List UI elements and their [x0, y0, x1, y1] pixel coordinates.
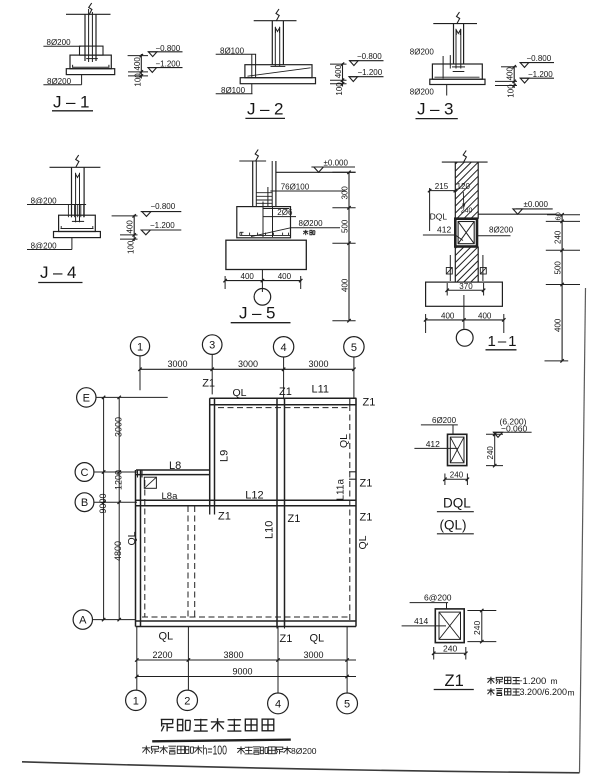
svg-text:120: 120 [457, 182, 471, 191]
svg-text:240: 240 [472, 621, 482, 635]
svg-text:1200: 1200 [113, 470, 123, 490]
svg-text:h=100: h=100 [203, 744, 228, 758]
wall column 1 [135, 470, 137, 627]
footing rebar J4 [61, 228, 94, 230]
svg-text:−1.200: −1.200 [150, 221, 175, 230]
wall column 5 outer [355, 398, 357, 626]
svg-text:±0.000: ±0.000 [324, 159, 349, 168]
svg-text:370: 370 [459, 282, 473, 291]
footing rebar J1 [72, 66, 110, 68]
svg-text:J–4: J–4 [40, 263, 81, 282]
svg-text:8Ø200: 8Ø200 [291, 746, 317, 756]
left dim lines [103, 397, 105, 619]
column Z1 corner E5 [350, 398, 356, 405]
svg-text:−1.200: −1.200 [528, 70, 553, 79]
section 1-1 [423, 151, 580, 363]
grid bubble B [75, 493, 94, 512]
wall break top line [239, 160, 266, 162]
column J3 [453, 24, 455, 64]
right dim 240 DQL [494, 434, 496, 465]
svg-text:m: m [568, 688, 575, 698]
center line [463, 295, 465, 329]
svg-text:240: 240 [443, 644, 457, 654]
slab top line [66, 13, 111, 15]
hidden QL dashed row E [218, 407, 348, 409]
svg-text:3000: 3000 [238, 359, 258, 369]
svg-text:8Ø200: 8Ø200 [410, 48, 435, 57]
drawing title roof structure plan [152, 718, 291, 741]
grid bubble 3 top [202, 335, 222, 355]
svg-text:100: 100 [506, 84, 515, 98]
grid stems bottom [136, 627, 138, 690]
hatched wall upper [454, 162, 456, 219]
slab top line [433, 23, 477, 25]
dim 400/100 J3 [513, 66, 515, 88]
wall top break [442, 161, 488, 163]
ground line [478, 213, 556, 215]
bed slab J3 [430, 79, 485, 84]
svg-text:−1.200: −1.200 [517, 676, 546, 687]
svg-text:400: 400 [506, 67, 515, 81]
svg-text:400: 400 [126, 220, 135, 234]
svg-text:L9: L9 [219, 450, 231, 462]
ground line +-0.000 [276, 171, 356, 173]
wall row A [136, 620, 357, 622]
svg-text:100: 100 [134, 73, 143, 87]
detail Z1 [402, 593, 575, 698]
dim 370 [447, 289, 483, 291]
stirrups J5 [256, 192, 272, 194]
svg-text:m: m [551, 676, 558, 686]
wall column 3 (beam L9) [209, 398, 211, 506]
svg-text:3000: 3000 [113, 417, 123, 437]
svg-text:QL: QL [338, 434, 350, 448]
dowel bars [449, 255, 451, 281]
grid bubble E [77, 388, 96, 407]
svg-text:B: B [81, 497, 88, 509]
svg-text:J–2: J–2 [247, 100, 288, 119]
svg-text:500: 500 [341, 219, 350, 233]
svg-text:Z1: Z1 [445, 672, 464, 690]
svg-text:J–3: J–3 [417, 100, 458, 119]
svg-text:−0.800: −0.800 [357, 52, 382, 61]
wall J2 [271, 21, 273, 65]
svg-text:A: A [79, 615, 87, 627]
dim 400 400 1-1 [426, 319, 504, 321]
svg-text:6Ø200: 6Ø200 [432, 416, 457, 425]
footing J2 [245, 65, 312, 78]
svg-text:±0.000: ±0.000 [524, 200, 549, 209]
svg-text:300: 300 [341, 186, 350, 200]
svg-text:5: 5 [351, 342, 357, 354]
svg-text:400: 400 [478, 311, 492, 320]
slab top line [50, 166, 101, 168]
rebar J4 [75, 173, 77, 222]
rebar leaders J3 [442, 56, 444, 78]
svg-text:215: 215 [435, 182, 449, 191]
bottom dim 9000 [137, 676, 356, 678]
grid bubble 5 top [344, 337, 364, 357]
hidden wall column 2 dashed [187, 506, 189, 617]
svg-text:QL: QL [159, 631, 174, 643]
svg-text:9000: 9000 [233, 666, 253, 676]
grid leaders left [96, 396, 168, 398]
grid bubble 4 top [273, 337, 293, 357]
grid stems top [139, 356, 141, 390]
svg-text:400: 400 [334, 64, 343, 78]
svg-text:Z1: Z1 [363, 397, 376, 409]
svg-text:QL: QL [357, 535, 369, 549]
svg-text:4: 4 [281, 342, 287, 354]
svg-text:8@200: 8@200 [31, 241, 57, 250]
hidden QL dashed row A [142, 616, 348, 618]
svg-text:240: 240 [553, 230, 562, 244]
svg-text:Z1: Z1 [279, 386, 292, 398]
column stub col3 below B [209, 506, 211, 515]
bottom dim 2200/3800/3000 [137, 659, 356, 661]
svg-text:9000: 9000 [98, 493, 108, 513]
bed slab J2 [240, 78, 315, 84]
svg-text:Z1: Z1 [280, 633, 293, 645]
svg-text:4: 4 [275, 698, 281, 710]
grid bubble 5 bottom [337, 693, 358, 714]
footing rebar J3 [435, 76, 480, 78]
rebar bundle J4 [67, 205, 69, 218]
foundation step J1 [80, 46, 104, 55]
footing block J5 [226, 240, 306, 269]
detail J-5 [223, 150, 355, 323]
svg-text:Z1: Z1 [288, 513, 301, 525]
grid bubble 4 bottom [268, 693, 289, 714]
svg-text:400: 400 [278, 272, 292, 281]
svg-text:2200: 2200 [153, 650, 173, 660]
bottom rebar hooks J5 [240, 234, 291, 236]
column Z1 tick A4 [276, 619, 278, 629]
dim 400/100 J4 [133, 215, 135, 241]
svg-text:400: 400 [241, 272, 255, 281]
dim 215 120 [430, 190, 456, 192]
svg-text:DQL: DQL [430, 211, 448, 221]
svg-text:QL: QL [126, 531, 138, 545]
rebar J5 [267, 187, 269, 207]
svg-text:3.200/6.200: 3.200/6.200 [520, 687, 568, 697]
column box Z1 [435, 609, 464, 643]
svg-text:6@200: 6@200 [424, 593, 452, 603]
rebar J1 [88, 9, 90, 62]
svg-text:Z1: Z1 [360, 512, 373, 524]
footing J1 [70, 55, 111, 69]
svg-text:3800: 3800 [224, 650, 244, 660]
svg-text:J–5: J–5 [239, 304, 280, 323]
svg-text:240: 240 [486, 446, 495, 460]
svg-text:L8a: L8a [162, 491, 179, 502]
page bottom border [22, 762, 580, 773]
footing J4 [59, 215, 96, 231]
svg-text:L12: L12 [245, 489, 263, 501]
grid bubble A [73, 610, 92, 629]
bottom label leader J3 [446, 85, 448, 96]
footing J3 [432, 64, 482, 79]
svg-text:76Ø100: 76Ø100 [281, 182, 310, 191]
dim 400/100 J2 [342, 63, 344, 86]
svg-text:L11: L11 [312, 384, 330, 396]
rebar leader J2 [251, 54, 253, 77]
svg-text:8Ø200: 8Ø200 [299, 219, 324, 228]
roof framing plan [73, 335, 375, 714]
detail J-2 [216, 9, 384, 119]
bed slab J1 [66, 69, 114, 75]
bottom dim 240 Z1 [434, 652, 466, 654]
wall row E (beam L11/QL) [210, 397, 356, 399]
svg-text:3: 3 [209, 340, 215, 352]
ring beam box DQL [448, 434, 467, 465]
svg-text:8Ø200: 8Ø200 [410, 88, 435, 97]
svg-text:2Ø6: 2Ø6 [277, 208, 293, 217]
svg-text:1–1: 1–1 [488, 333, 519, 350]
svg-text:100: 100 [335, 82, 344, 96]
leader 120 to 240 [462, 192, 465, 207]
column Z1 tick B5 [349, 499, 357, 501]
svg-text:QL: QL [233, 387, 247, 399]
grid bubble 2 bottom [177, 690, 197, 710]
svg-text:3000: 3000 [309, 359, 329, 369]
hidden QL dashed column 1 [144, 480, 146, 617]
svg-text:412: 412 [426, 439, 440, 449]
dim 400 400 J5 [225, 280, 302, 282]
grid bubble J5 [254, 289, 271, 306]
dim 400/100 J1 [140, 54, 142, 79]
svg-text:400: 400 [441, 311, 455, 320]
rebar J3 [455, 29, 457, 69]
svg-text:240: 240 [461, 208, 473, 215]
svg-text:1: 1 [133, 695, 139, 707]
detail J-3 [410, 12, 554, 119]
svg-text:240: 240 [450, 471, 464, 480]
svg-text:Z1: Z1 [360, 478, 373, 490]
svg-text:J–1: J–1 [53, 93, 94, 112]
svg-text:Z1: Z1 [218, 511, 231, 523]
svg-text:500: 500 [553, 261, 562, 275]
svg-text:Z1: Z1 [202, 378, 215, 390]
svg-text:3000: 3000 [304, 650, 324, 660]
wall row C (beam L8) [136, 469, 210, 471]
svg-text:8Ø200: 8Ø200 [489, 225, 514, 234]
grid bubble 1 bottom [126, 690, 146, 710]
svg-text:400: 400 [133, 57, 142, 71]
svg-text:E: E [83, 392, 90, 404]
column J1 [84, 14, 86, 61]
svg-text:−0.800: −0.800 [151, 202, 176, 211]
right dim 240 Z1 [481, 611, 483, 642]
detail DQL [414, 416, 531, 534]
right dim 60/240/500/400 [561, 215, 563, 361]
svg-text:5: 5 [344, 698, 350, 710]
page right border [580, 288, 586, 773]
ring beam DQL box [455, 219, 477, 247]
detail J-1 [43, 3, 182, 112]
svg-text:2: 2 [184, 695, 190, 707]
svg-text:DQL: DQL [443, 496, 471, 511]
footing rebar diagonal J2 [248, 68, 311, 76]
svg-text:4800: 4800 [113, 541, 123, 561]
footing 1-1 [426, 282, 503, 306]
hidden QL dashed column 5 [349, 405, 351, 620]
column J4 [71, 167, 73, 217]
slab top line [254, 20, 297, 22]
svg-text:L10: L10 [264, 521, 276, 539]
svg-text:100: 100 [126, 240, 135, 254]
svg-text:414: 414 [414, 616, 428, 626]
bed slab J4 [54, 232, 101, 238]
svg-text:60: 60 [553, 212, 562, 220]
svg-text:400: 400 [341, 278, 350, 292]
svg-text:L11a: L11a [336, 479, 347, 501]
grid bubble 1 top [130, 337, 149, 356]
svg-text:−1.200: −1.200 [358, 68, 383, 77]
svg-text:(QL): (QL) [440, 518, 467, 533]
hatched wall lower [454, 247, 456, 283]
svg-text:1: 1 [137, 341, 143, 353]
rebar J2 [274, 27, 276, 67]
svg-text:C: C [81, 467, 89, 479]
foundation step J5 [237, 207, 291, 238]
svg-text:400: 400 [553, 318, 562, 332]
wall J5 [252, 161, 254, 207]
note column base/top elevations [487, 678, 494, 680]
svg-text:−0.800: −0.800 [527, 54, 552, 63]
svg-text:3000: 3000 [168, 359, 188, 369]
wall row B (beams L8a/L12) [136, 499, 357, 501]
svg-text:L8: L8 [169, 460, 181, 472]
flue symbol [144, 477, 156, 488]
svg-text:QL: QL [310, 633, 325, 645]
column Z1 tick C5 [349, 471, 357, 473]
wall column 4 (beam L10) [276, 398, 278, 626]
grid bubble 1-1 [456, 329, 473, 346]
bottom dim 240 DQL [445, 478, 468, 480]
right dim 300/500/400 J5 [348, 172, 350, 320]
detail J-4 [27, 155, 181, 283]
general note [142, 744, 317, 758]
grid bubble C [75, 463, 94, 482]
top dim line 3000x3 [140, 368, 354, 370]
svg-text:412: 412 [437, 224, 451, 234]
